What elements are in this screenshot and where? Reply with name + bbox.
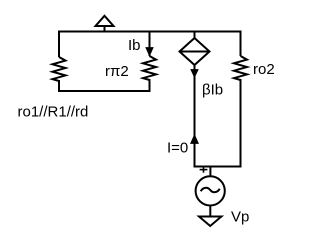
svg-text:ro1//R1//rd: ro1//R1//rd [18,104,89,121]
wire top rail [58,31,242,33]
wire rpi2 branch bottom [149,79,151,92]
beta-Ib direction arrow [191,70,198,77]
svg-text:ro2: ro2 [253,61,275,78]
wire beta-Ib branch [194,65,196,168]
wire ro2 branch bottom [240,79,242,168]
svg-text:rπ2: rπ2 [105,63,129,80]
svg-text:Ib: Ib [128,37,141,54]
voltage source stem [209,166,211,177]
svg-text:βIb: βIb [202,82,223,99]
I=0 arrow [191,135,198,143]
wire left branch bottom [58,80,60,92]
resistor rpi2 [143,56,156,80]
Ib current arrow [146,48,153,56]
terminal triangle (input port) [96,16,114,31]
plus polarity mark [200,167,208,173]
resistor ro2 [234,56,247,80]
wire to ground [209,206,211,217]
wire bottom rail [194,166,242,168]
svg-text:I=0: I=0 [167,140,188,157]
wire ro2 branch top [240,31,242,57]
svg-text:Vp: Vp [231,209,249,226]
sine symbol [201,188,220,192]
dependent current source U1 diamond [180,38,210,65]
dependent source stem [194,31,196,39]
wire left branch top [58,31,60,58]
AC source Vp circle [196,176,225,205]
resistor ro1//R1//rd [53,57,66,81]
wire loop bottom [58,90,151,92]
wire rpi2 branch top [149,31,151,57]
ground symbol [199,217,221,227]
